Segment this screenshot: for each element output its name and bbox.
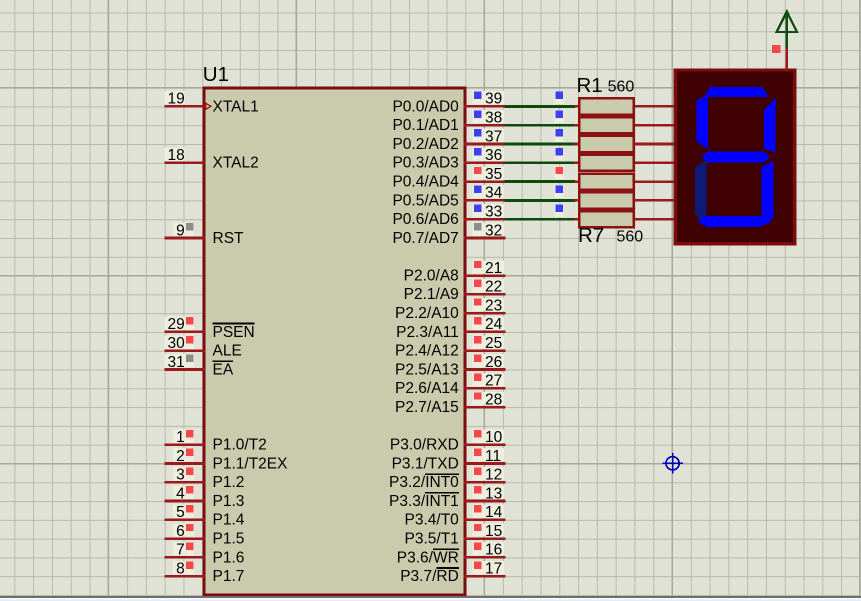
segment E (unlit)	[695, 160, 707, 221]
pin 5 (P1.4)	[164, 504, 244, 529]
pin 34 (P0.5/AD5)	[392, 185, 505, 210]
segment G (lit)	[702, 152, 770, 163]
svg-text:6: 6	[176, 523, 185, 540]
pin 10 (P3.0/RXD)	[390, 429, 506, 454]
pin 14 (P3.4/T0)	[405, 504, 506, 529]
wire P0.2 to R3	[505, 129, 576, 144]
power symbol (arrow up)	[777, 12, 797, 48]
svg-text:P3.3/INT1: P3.3/INT1	[389, 493, 459, 510]
svg-text:P3.1/TXD: P3.1/TXD	[392, 455, 459, 472]
svg-text:P2.0/A8: P2.0/A8	[404, 268, 459, 285]
pin 30 (ALE)	[164, 335, 242, 360]
svg-text:P3.7/RD: P3.7/RD	[400, 568, 459, 585]
svg-text:30: 30	[168, 335, 186, 352]
svg-text:P1.5: P1.5	[213, 531, 245, 548]
pin 12 (P3.2/INT0)	[389, 467, 505, 492]
svg-text:9: 9	[176, 222, 185, 239]
pin 32 (P0.7/AD7)	[392, 222, 505, 247]
svg-text:P1.1/T2EX: P1.1/T2EX	[213, 455, 289, 472]
resistor R2 (560)	[574, 117, 676, 133]
wire P0.3 to R4	[505, 148, 576, 163]
pin 22 (P2.1/A9)	[404, 279, 506, 304]
svg-text:28: 28	[485, 391, 502, 408]
origin marker node	[662, 453, 683, 474]
svg-text:P0.2/AD2: P0.2/AD2	[392, 136, 458, 153]
7-segment display body	[675, 70, 795, 244]
resistor R5 (560)	[574, 174, 676, 190]
svg-text:P0.0/AD0: P0.0/AD0	[392, 98, 459, 115]
svg-text:38: 38	[485, 110, 502, 127]
svg-text:P3.5/T1: P3.5/T1	[405, 531, 459, 548]
wire P0.4 to R5	[505, 167, 576, 182]
pin 23 (P2.2/A10)	[395, 297, 505, 322]
svg-text:15: 15	[485, 523, 502, 540]
resistor R3 (560)	[574, 136, 676, 152]
segment B (lit)	[764, 98, 776, 152]
pin 21 (P2.0/A8)	[404, 260, 506, 285]
wire P0.0 to R1	[505, 91, 576, 106]
svg-text:RST: RST	[213, 230, 245, 247]
pin 37 (P0.2/AD2)	[392, 128, 505, 153]
svg-text:14: 14	[485, 504, 503, 521]
wire P0.1 to R2	[505, 110, 576, 125]
svg-text:5: 5	[176, 504, 185, 521]
svg-text:16: 16	[485, 542, 502, 559]
svg-text:18: 18	[168, 147, 185, 164]
svg-text:EA: EA	[213, 361, 234, 378]
svg-text:P3.0/RXD: P3.0/RXD	[390, 437, 459, 454]
svg-text:P2.4/A12: P2.4/A12	[395, 343, 459, 360]
op-amp U1 body (8051 MCU)	[204, 88, 465, 595]
resistor R7 (560)	[574, 211, 676, 227]
svg-text:37: 37	[485, 128, 502, 145]
svg-text:560: 560	[617, 228, 644, 245]
svg-text:25: 25	[485, 335, 502, 352]
pin 25 (P2.4/A12)	[395, 335, 505, 360]
svg-text:P2.2/A10: P2.2/A10	[395, 305, 459, 322]
svg-text:27: 27	[485, 373, 502, 390]
svg-text:P1.3: P1.3	[213, 493, 245, 510]
svg-text:XTAL2: XTAL2	[213, 155, 259, 172]
svg-text:31: 31	[168, 354, 185, 371]
pin 17 (P3.7/RD)	[400, 561, 505, 586]
svg-text:13: 13	[485, 485, 502, 502]
pin 36 (P0.3/AD3)	[392, 147, 505, 172]
svg-text:ALE: ALE	[213, 343, 242, 360]
pin 8 (P1.7)	[164, 561, 244, 586]
pin 39 (P0.0/AD0)	[392, 91, 505, 116]
svg-text:P2.3/A11: P2.3/A11	[396, 324, 459, 341]
svg-text:19: 19	[168, 91, 185, 108]
pin 3 (P1.2)	[164, 467, 244, 492]
svg-text:R1: R1	[577, 74, 603, 97]
pin 6 (P1.5)	[164, 523, 244, 548]
svg-text:17: 17	[485, 561, 502, 578]
pin 7 (P1.6)	[164, 542, 244, 567]
svg-text:560: 560	[608, 79, 635, 96]
svg-text:P0.3/AD3: P0.3/AD3	[392, 155, 458, 172]
svg-text:22: 22	[485, 279, 502, 296]
svg-text:39: 39	[485, 91, 502, 108]
segment D (lit)	[698, 216, 771, 227]
svg-text:P0.4/AD4: P0.4/AD4	[392, 174, 459, 191]
svg-text:P1.4: P1.4	[213, 512, 245, 529]
svg-text:XTAL1: XTAL1	[213, 98, 259, 115]
svg-text:P1.2: P1.2	[213, 474, 245, 491]
svg-text:2: 2	[176, 448, 185, 465]
svg-text:P1.6: P1.6	[213, 549, 245, 566]
svg-text:26: 26	[485, 354, 502, 371]
svg-text:P0.7/AD7: P0.7/AD7	[392, 230, 458, 247]
svg-text:U1: U1	[203, 63, 229, 86]
pin 4 (P1.3)	[164, 485, 244, 510]
svg-text:34: 34	[485, 185, 503, 202]
svg-text:36: 36	[485, 147, 502, 164]
svg-text:P2.5/A13: P2.5/A13	[395, 361, 459, 378]
segment F (lit)	[696, 95, 708, 149]
svg-text:P1.7: P1.7	[213, 568, 245, 585]
pin 19 (XTAL1)	[164, 91, 258, 116]
svg-text:P1.0/T2: P1.0/T2	[213, 437, 267, 454]
pin 27 (P2.6/A14)	[395, 373, 505, 398]
svg-text:1: 1	[176, 429, 185, 446]
resistor R1 (560)	[574, 98, 676, 114]
svg-text:P2.7/A15: P2.7/A15	[395, 399, 459, 416]
segment C (lit)	[762, 161, 774, 222]
wire P0.6 to R7	[505, 204, 576, 219]
svg-text:P0.6/AD6: P0.6/AD6	[392, 211, 458, 228]
svg-text:7: 7	[176, 542, 185, 559]
svg-text:24: 24	[485, 316, 503, 333]
svg-text:3: 3	[176, 467, 185, 484]
pin 24 (P2.3/A11)	[396, 316, 505, 341]
svg-text:P0.1/AD1: P0.1/AD1	[392, 117, 458, 134]
pin 35 (P0.4/AD4)	[392, 166, 505, 191]
pin 2 (P1.1/T2EX)	[164, 448, 288, 473]
pin 13 (P3.3/INT1)	[389, 485, 505, 510]
svg-text:P3.6/WR: P3.6/WR	[397, 549, 459, 566]
svg-text:35: 35	[485, 166, 502, 183]
pin 16 (P3.6/WR)	[397, 542, 506, 567]
svg-text:8: 8	[176, 561, 185, 578]
svg-text:12: 12	[485, 467, 502, 484]
display power pin wire	[785, 47, 788, 72]
svg-text:P2.6/A14: P2.6/A14	[395, 380, 459, 397]
pin 11 (P3.1/TXD)	[392, 448, 506, 473]
resistor R6 (560)	[574, 192, 676, 208]
svg-text:P3.2/INT0: P3.2/INT0	[389, 474, 459, 491]
svg-text:10: 10	[485, 429, 503, 446]
pin 31 (EA)	[164, 354, 234, 379]
svg-text:P3.4/T0: P3.4/T0	[405, 512, 460, 529]
pin 9 (RST)	[164, 222, 244, 247]
svg-text:21: 21	[485, 260, 502, 277]
svg-text:11: 11	[485, 448, 501, 465]
unconnected marker square	[772, 45, 781, 53]
svg-text:29: 29	[168, 316, 185, 333]
svg-text:4: 4	[176, 485, 185, 502]
resistor R4 (560)	[574, 155, 676, 171]
svg-text:P2.1/A9: P2.1/A9	[404, 286, 459, 303]
svg-text:R7: R7	[578, 224, 604, 247]
pin 1 (P1.0/T2)	[164, 429, 266, 454]
pin 29 (PSEN)	[164, 316, 254, 341]
pin 18 (XTAL2)	[164, 147, 258, 172]
segment A (lit)	[704, 87, 769, 97]
svg-text:PSEN: PSEN	[213, 324, 255, 341]
svg-text:32: 32	[485, 222, 502, 239]
svg-text:P0.5/AD5: P0.5/AD5	[392, 192, 458, 209]
pin 15 (P3.5/T1)	[405, 523, 506, 548]
pin 28 (P2.7/A15)	[395, 391, 505, 416]
wire P0.5 to R6	[505, 185, 576, 200]
pin 38 (P0.1/AD1)	[392, 110, 505, 135]
pin 33 (P0.6/AD6)	[392, 204, 505, 229]
pin 26 (P2.5/A13)	[395, 354, 505, 379]
svg-text:33: 33	[485, 204, 502, 221]
svg-text:23: 23	[485, 297, 502, 314]
